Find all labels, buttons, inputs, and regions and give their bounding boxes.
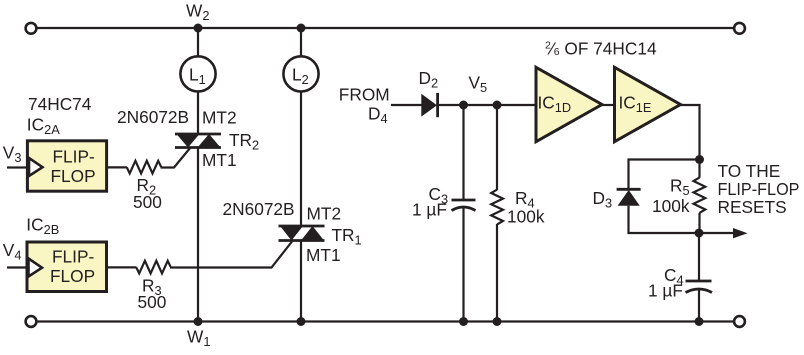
label 1 uF (C3) — [412, 200, 447, 220]
lamp L1 — [180, 56, 215, 91]
label 100k (R5) — [652, 196, 690, 216]
wire bottom rail W1 — [37, 320, 733, 322]
junction dot top at L1 — [194, 24, 203, 33]
junction dot bottom x463.5 — [459, 317, 468, 326]
label IC2A — [27, 114, 60, 137]
svg-text:500: 500 — [133, 192, 162, 212]
inverter IC1D — [536, 67, 602, 141]
junction dot V5 at C3 — [459, 101, 468, 110]
label C3 — [429, 184, 449, 207]
label TR2 — [229, 130, 259, 153]
junction dot top at L2 — [297, 24, 306, 33]
label 500 (R3) — [138, 292, 167, 312]
diode D2 — [421, 93, 437, 117]
terminal bottom-left — [26, 316, 37, 327]
wire triac TR2 MT1 to bottom rail — [197, 148, 199, 322]
node W2 label — [186, 1, 209, 24]
wire V4 input — [7, 266, 28, 268]
label 100k (R4) — [507, 207, 545, 227]
wire D2 to IC1D — [438, 104, 537, 106]
label TO THE FLIP-FLOP RESETS — [718, 161, 800, 217]
terminal top-right — [734, 23, 745, 34]
svg-text:2N6072B: 2N6072B — [117, 107, 189, 127]
wire IC2A output — [107, 166, 128, 168]
wire R5 to arrow node — [698, 213, 700, 233]
flip-flop U IC2A — [27, 141, 106, 191]
wire triac TR1 MT1 to bottom rail — [300, 241, 302, 322]
wire C4 to bottom rail — [698, 290, 700, 322]
svg-text:FROM: FROM — [339, 84, 390, 104]
label V4 — [3, 240, 22, 263]
label MT1 (TR2) — [202, 150, 237, 170]
label MT2 (TR1) — [307, 204, 342, 224]
svg-text:FLOP: FLOP — [51, 166, 96, 186]
wire branch to D3 — [629, 160, 700, 190]
junction dot bottom x301 — [297, 317, 306, 326]
svg-text:MT2: MT2 — [307, 204, 342, 224]
wire IC1D to IC1E — [602, 104, 615, 106]
svg-text:FLIP-FLOP: FLIP-FLOP — [718, 179, 800, 199]
wire R4 to bottom rail — [496, 224, 498, 322]
label D2 — [419, 68, 439, 91]
svg-text:FLIP-: FLIP- — [52, 247, 94, 267]
wire V5 to C3 — [462, 105, 464, 200]
wire top rail W2 — [37, 27, 733, 29]
node W1 label — [187, 327, 210, 350]
label FROM D4 — [339, 84, 390, 126]
capacitor C3 — [452, 200, 476, 211]
wire IC2B output — [107, 266, 137, 268]
wire node to R5 — [698, 160, 700, 178]
svg-text:500: 500 — [138, 292, 167, 312]
wire IC1E output to right column — [681, 105, 700, 160]
flip-flop U IC2B — [27, 242, 107, 292]
junction dot IC1E output branch — [695, 155, 704, 164]
capacitor C4 — [686, 281, 713, 293]
lamp L2 — [283, 56, 318, 91]
wire lamp L1 to triac TR2 — [197, 93, 199, 136]
junction dot bottom x198 — [194, 317, 203, 326]
svg-text:2⁄6 OF 74HC14: 2⁄6 OF 74HC14 — [545, 39, 657, 59]
svg-text:MT2: MT2 — [202, 108, 237, 128]
resistor R2 — [127, 161, 161, 174]
label MT1 (TR1) — [306, 245, 341, 265]
wire D3 to arrow node — [629, 206, 700, 233]
wire lamp L2 to triac TR1 — [300, 93, 302, 227]
resistor R5 — [694, 178, 706, 213]
triac TR1 — [279, 226, 325, 241]
label 74HC74 — [28, 94, 92, 114]
label 2/6 OF 74HC14 — [545, 39, 657, 59]
label C4 — [664, 265, 684, 288]
wire V3 input — [7, 166, 29, 168]
wire V5 to R4 — [496, 105, 498, 190]
junction dot arrow node — [695, 229, 704, 238]
resistor R4 — [491, 190, 503, 225]
wire gate of TR2 — [161, 148, 191, 168]
wire arrow node to C4 — [698, 233, 700, 281]
junction dot bottom x497 — [493, 317, 502, 326]
label 1 uF (C4) — [648, 281, 683, 301]
terminal top-left — [26, 23, 37, 34]
svg-text:MT1: MT1 — [306, 245, 341, 265]
label 2N6072B (TR2) — [117, 107, 189, 127]
svg-text:FLOP: FLOP — [50, 266, 95, 286]
label R3 — [142, 276, 162, 299]
wire FROM D4 to diode D2 — [391, 104, 422, 106]
label MT2 (TR2) — [202, 108, 237, 128]
svg-text:74HC74: 74HC74 — [28, 94, 92, 114]
label 2N6072B (TR1) — [223, 199, 295, 219]
resistor R3 — [136, 261, 170, 274]
svg-text:MT1: MT1 — [202, 150, 237, 170]
svg-text:100k: 100k — [652, 196, 690, 216]
label V3 — [3, 143, 22, 166]
wire arrow to flip-flop resets — [699, 228, 748, 238]
terminal bottom-right — [734, 316, 745, 327]
svg-text:2N6072B: 2N6072B — [223, 199, 295, 219]
junction dot V5 at R4 — [493, 101, 502, 110]
wire C3 to bottom rail — [462, 208, 464, 322]
label R5 — [670, 176, 690, 199]
junction dot bottom x699 — [695, 317, 704, 326]
label R4 — [515, 188, 535, 211]
wire gate of TR1 — [170, 242, 292, 268]
label IC2B — [26, 215, 59, 238]
label 500 (R2) — [133, 192, 162, 212]
label TR1 — [332, 225, 362, 248]
label R2 — [137, 175, 157, 198]
svg-text:1 µF: 1 µF — [412, 200, 447, 220]
svg-text:FLIP-: FLIP- — [53, 147, 95, 167]
wire top rail to lamp L1 — [197, 28, 199, 56]
svg-text:1 µF: 1 µF — [648, 281, 683, 301]
node V5 label — [469, 73, 488, 96]
svg-text:100k: 100k — [507, 207, 545, 227]
inverter IC1E — [615, 67, 681, 141]
triac TR2 — [175, 134, 221, 148]
label D3 — [593, 188, 613, 211]
diode D3 — [617, 189, 641, 206]
svg-text:RESETS: RESETS — [718, 197, 787, 217]
svg-text:TO THE: TO THE — [718, 161, 781, 181]
wire top rail to lamp L2 — [300, 28, 302, 56]
